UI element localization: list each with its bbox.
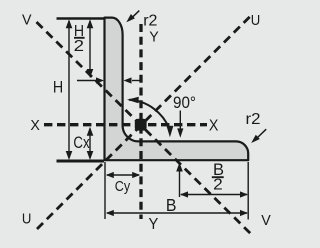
svg-text:U: U bbox=[22, 211, 32, 228]
svg-text:Y: Y bbox=[149, 216, 159, 233]
svg-text:X: X bbox=[30, 117, 40, 134]
svg-text:X: X bbox=[209, 117, 219, 134]
svg-text:Cx: Cx bbox=[73, 134, 90, 152]
svg-text:B: B bbox=[166, 195, 177, 215]
svg-text:Cy: Cy bbox=[115, 178, 131, 195]
svg-text:90°: 90° bbox=[173, 94, 196, 112]
svg-text:Y: Y bbox=[149, 28, 159, 45]
svg-text:r2: r2 bbox=[246, 111, 261, 128]
svg-text:2: 2 bbox=[213, 177, 223, 194]
svg-text:2: 2 bbox=[74, 38, 85, 55]
svg-text:H: H bbox=[53, 79, 63, 97]
svg-text:r2: r2 bbox=[143, 13, 157, 30]
svg-text:U: U bbox=[251, 12, 261, 29]
svg-text:V: V bbox=[261, 212, 271, 229]
svg-text:V: V bbox=[22, 11, 32, 28]
